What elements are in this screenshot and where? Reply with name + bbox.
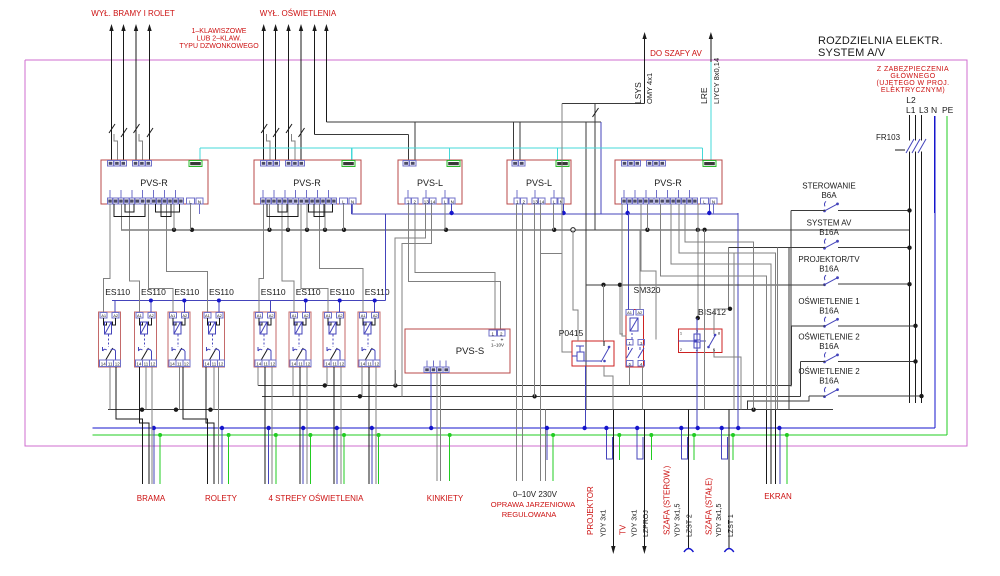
svg-text:PROJEKTOR: PROJEKTOR: [586, 486, 595, 535]
svg-text:L2: L2: [906, 95, 916, 105]
svg-text:1–10V: 1–10V: [491, 343, 504, 348]
svg-text:14: 14: [325, 362, 331, 367]
svg-text:ES110: ES110: [174, 287, 199, 297]
svg-text:N: N: [351, 199, 354, 204]
svg-text:13: 13: [424, 199, 430, 204]
svg-text:LUB 2–KLAW.: LUB 2–KLAW.: [197, 36, 242, 43]
svg-text:14: 14: [539, 199, 545, 204]
svg-text:PVS-R: PVS-R: [293, 178, 321, 188]
svg-text:N: N: [712, 199, 715, 204]
svg-text:11: 11: [177, 362, 182, 367]
svg-text:LZST 2: LZST 2: [687, 514, 694, 537]
svg-text:OPRAWA JARZENIOWA: OPRAWA JARZENIOWA: [491, 500, 576, 509]
svg-text:B6A: B6A: [821, 191, 837, 200]
svg-text:EKRAN: EKRAN: [764, 492, 792, 501]
svg-text:A2: A2: [182, 313, 188, 318]
svg-text:14: 14: [170, 362, 176, 367]
svg-text:12: 12: [115, 362, 121, 367]
svg-text:ELEKTRYCZNYM): ELEKTRYCZNYM): [881, 87, 945, 94]
svg-text:ES110: ES110: [330, 287, 355, 297]
svg-text:ES110: ES110: [261, 287, 286, 297]
svg-text:A1: A1: [257, 313, 263, 318]
svg-text:N: N: [451, 199, 454, 204]
svg-text:PVS-S: PVS-S: [456, 346, 485, 357]
svg-text:A2: A2: [149, 313, 155, 318]
svg-text:LIYCY 8x0,14: LIYCY 8x0,14: [712, 58, 721, 104]
svg-text:A2: A2: [217, 313, 223, 318]
svg-text:B16A: B16A: [819, 228, 839, 237]
svg-text:14: 14: [136, 362, 142, 367]
svg-text:PROJEKTOR/TV: PROJEKTOR/TV: [798, 255, 860, 264]
svg-text:LSYS: LSYS: [633, 82, 643, 104]
svg-text:STEROWANIE: STEROWANIE: [802, 181, 855, 190]
svg-text:14: 14: [101, 362, 107, 367]
svg-text:0–10V 230V: 0–10V 230V: [513, 490, 558, 499]
svg-text:12: 12: [339, 362, 345, 367]
svg-text:OMY 4x1: OMY 4x1: [645, 73, 654, 104]
svg-text:A1: A1: [101, 313, 107, 318]
svg-text:WYŁ. OŚWIETLENIA: WYŁ. OŚWIETLENIA: [260, 9, 337, 18]
svg-text:N: N: [931, 105, 937, 115]
svg-text:A1: A1: [627, 310, 633, 315]
svg-text:N: N: [198, 199, 201, 204]
svg-text:11: 11: [263, 362, 268, 367]
svg-text:LZST 1: LZST 1: [728, 514, 735, 537]
svg-text:A1: A1: [170, 313, 176, 318]
svg-text:ES110: ES110: [105, 287, 130, 297]
svg-text:SM320: SM320: [634, 285, 661, 295]
svg-text:(UJĘTEGO W PROJ.: (UJĘTEGO W PROJ.: [877, 80, 950, 87]
svg-text:YDY 3x1: YDY 3x1: [632, 509, 639, 537]
svg-text:12: 12: [374, 362, 380, 367]
svg-text:12: 12: [305, 362, 311, 367]
svg-text:YDY 3x1,5: YDY 3x1,5: [716, 504, 723, 537]
svg-text:11: 11: [298, 362, 303, 367]
svg-text:LZPROJ: LZPROJ: [643, 510, 650, 537]
svg-text:12: 12: [150, 362, 156, 367]
svg-text:14: 14: [430, 199, 436, 204]
svg-text:12: 12: [218, 362, 224, 367]
svg-text:B16A: B16A: [819, 377, 839, 386]
svg-text:LRE: LRE: [699, 87, 709, 104]
svg-text:PVS-R: PVS-R: [140, 178, 168, 188]
svg-text:11: 11: [108, 362, 113, 367]
svg-text:B16A: B16A: [819, 265, 839, 274]
svg-text:A2: A2: [304, 313, 310, 318]
svg-text:A2: A2: [269, 313, 275, 318]
svg-text:ES110: ES110: [365, 287, 390, 297]
svg-text:SYSTEM A/V: SYSTEM A/V: [818, 47, 886, 59]
svg-text:PVS-R: PVS-R: [654, 178, 682, 188]
svg-text:L3: L3: [919, 105, 929, 115]
svg-text:14: 14: [291, 362, 297, 367]
svg-text:PE: PE: [942, 105, 954, 115]
svg-text:P0415: P0415: [559, 328, 584, 338]
svg-text:SZAFA (STAŁE): SZAFA (STAŁE): [705, 477, 714, 535]
svg-text:YDY 3x1,5: YDY 3x1,5: [675, 504, 682, 537]
svg-text:OŚWIETLENIE 2: OŚWIETLENIE 2: [798, 332, 860, 341]
svg-text:B16A: B16A: [819, 342, 839, 351]
svg-text:14: 14: [204, 362, 210, 367]
svg-text:1–KLAWISZOWE: 1–KLAWISZOWE: [192, 28, 247, 35]
svg-text:L1: L1: [906, 105, 916, 115]
svg-text:A2: A2: [113, 313, 119, 318]
svg-text:A2: A2: [637, 310, 643, 315]
svg-text:12: 12: [184, 362, 190, 367]
svg-text:13: 13: [533, 199, 539, 204]
svg-text:WYŁ. BRAMY I ROLET: WYŁ. BRAMY I ROLET: [91, 9, 175, 18]
svg-text:11: 11: [332, 362, 337, 367]
svg-text:A2: A2: [373, 313, 379, 318]
svg-text:12: 12: [270, 362, 276, 367]
svg-text:ROLETY: ROLETY: [205, 494, 238, 503]
svg-text:PVS-L: PVS-L: [526, 178, 552, 188]
svg-text:KINKIETY: KINKIETY: [427, 494, 464, 503]
svg-text:FR103: FR103: [876, 133, 901, 142]
svg-text:A1: A1: [137, 313, 143, 318]
svg-text:OŚWIETLENIE 1: OŚWIETLENIE 1: [798, 297, 860, 306]
svg-text:A1: A1: [205, 313, 211, 318]
svg-text:11: 11: [367, 362, 372, 367]
svg-text:TV: TV: [619, 524, 628, 535]
svg-text:14: 14: [360, 362, 366, 367]
svg-text:A1: A1: [326, 313, 332, 318]
svg-text:Z ZABEZPIECZENIA: Z ZABEZPIECZENIA: [877, 66, 949, 73]
svg-text:A1: A1: [361, 313, 367, 318]
svg-text:14: 14: [256, 362, 262, 367]
svg-text:A2: A2: [338, 313, 344, 318]
svg-text:BRAMA: BRAMA: [137, 494, 166, 503]
svg-text:PVS-L: PVS-L: [417, 178, 443, 188]
svg-text:ROZDZIELNIA ELEKTR.: ROZDZIELNIA ELEKTR.: [818, 35, 943, 47]
svg-text:11: 11: [144, 362, 149, 367]
svg-text:REGULOWANA: REGULOWANA: [502, 510, 558, 519]
svg-text:TYPU DZWONKOWEGO: TYPU DZWONKOWEGO: [179, 43, 259, 50]
svg-text:ES110: ES110: [209, 287, 234, 297]
svg-text:YDY 3x1: YDY 3x1: [601, 509, 608, 537]
svg-text:SZAFA (STEROW.): SZAFA (STEROW.): [663, 465, 672, 535]
svg-text:A1: A1: [292, 313, 298, 318]
svg-text:B16A: B16A: [819, 306, 839, 315]
svg-text:SYSTEM AV: SYSTEM AV: [807, 219, 852, 228]
svg-text:OŚWIETLENIE 2: OŚWIETLENIE 2: [798, 367, 860, 376]
svg-text:DO SZAFY AV: DO SZAFY AV: [650, 49, 702, 58]
svg-text:GŁÓWNEGO: GŁÓWNEGO: [890, 71, 935, 80]
svg-text:4 STREFY OŚWIETLENIA: 4 STREFY OŚWIETLENIA: [269, 494, 365, 503]
svg-text:11: 11: [212, 362, 217, 367]
